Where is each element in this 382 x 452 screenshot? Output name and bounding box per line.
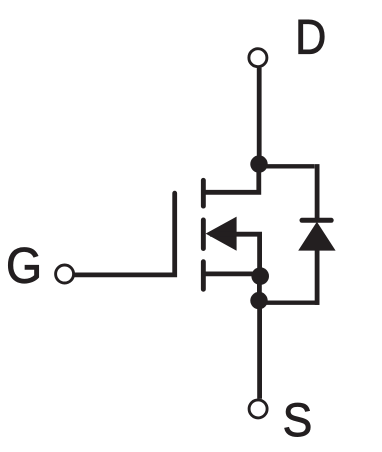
MOSFET Q1 gate electrode and lead [75, 193, 175, 275]
label S [285, 403, 310, 436]
MOSFET Q1 drain contact bar [201, 180, 206, 206]
wire drain junction to diode branch (top) [259, 164, 315, 168]
label G [8, 248, 38, 284]
wire D terminal to drain junction [257, 68, 262, 165]
terminal D [249, 49, 267, 67]
label D [299, 20, 324, 54]
junction source node [251, 267, 269, 285]
MOSFET Q1 body arrow [206, 217, 237, 251]
wire diode branch upper vertical [315, 164, 320, 220]
wire source junction to body junction [257, 276, 262, 301]
terminal G [56, 265, 74, 283]
wire source lead [203, 271, 259, 276]
MOSFET Q1 channel bar [201, 220, 206, 249]
MOSFET Q1 source contact bar [201, 262, 206, 290]
junction body-diode node [250, 292, 267, 309]
wire body junction to S terminal [257, 301, 262, 399]
wire diode branch bottom to body junction [259, 301, 319, 305]
wire body connection to source junction [210, 234, 260, 276]
diode D1 cathode bar [302, 218, 331, 223]
diode D1 anode triangle [298, 222, 335, 251]
terminal S [249, 400, 267, 418]
wire drain lead [203, 164, 258, 192]
wire diode branch lower vertical [315, 249, 320, 305]
junction drain node [250, 155, 267, 172]
